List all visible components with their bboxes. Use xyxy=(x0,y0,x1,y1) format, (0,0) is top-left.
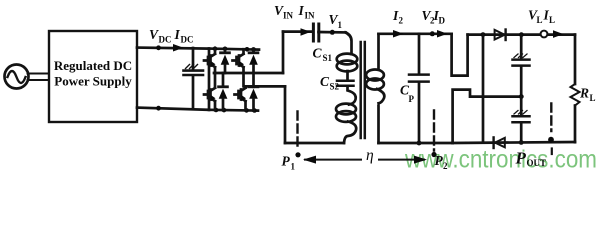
svg-text:L: L xyxy=(590,93,596,103)
Regulated DC Power Supply box xyxy=(49,31,137,122)
diode D4 (antiparallel, lower-right) xyxy=(249,87,258,111)
svg-text:L: L xyxy=(549,15,555,25)
rectifier branch rail xyxy=(482,35,485,143)
node dot mid caps xyxy=(519,94,524,99)
arrow I_D xyxy=(437,30,448,38)
wire inverter output A xyxy=(214,72,283,75)
AC source V1 xyxy=(5,65,29,89)
svg-text:S1: S1 xyxy=(323,53,333,63)
wire primary top xyxy=(283,30,346,34)
wire rectifier input jog bottom xyxy=(453,90,522,143)
svg-text:DC: DC xyxy=(181,35,194,45)
svg-text:P: P xyxy=(409,94,415,104)
wire supply bottom output xyxy=(137,108,209,110)
node dot xyxy=(481,32,486,37)
wire AC source to supply box xyxy=(28,74,50,81)
svg-text:IN: IN xyxy=(283,10,294,20)
node dot xyxy=(519,32,524,37)
inverter left rail xyxy=(208,49,211,110)
svg-text:2: 2 xyxy=(443,161,448,171)
primary coil L1 top xyxy=(337,32,358,80)
node dot xyxy=(156,45,161,50)
svg-text:V: V xyxy=(149,27,159,42)
svg-text:Power Supply: Power Supply xyxy=(54,74,132,89)
diode D5 xyxy=(495,30,506,41)
capacitor C_S2 xyxy=(337,81,354,86)
svg-text:2: 2 xyxy=(399,16,404,26)
capacitor C_S1 xyxy=(313,24,318,41)
diode D3 (antiparallel, lower-left) xyxy=(219,73,228,110)
svg-text:Regulated DC: Regulated DC xyxy=(54,58,132,73)
primary coil L1 bottom xyxy=(336,86,356,143)
node dot xyxy=(519,140,524,145)
arrow I_DC xyxy=(173,44,184,52)
svg-text:OUT: OUT xyxy=(527,158,547,168)
svg-text:I: I xyxy=(298,3,305,18)
arrow I_L xyxy=(553,30,564,38)
inverter bottom rail xyxy=(209,108,258,111)
node dot CP bottom xyxy=(417,141,422,146)
svg-text:I: I xyxy=(174,27,181,42)
wire primary bottom xyxy=(285,142,344,145)
diode D2 (antiparallel, upper-right) xyxy=(249,49,258,86)
node dot V1 xyxy=(330,30,335,35)
svg-text:DC: DC xyxy=(159,35,172,45)
node dot V2 xyxy=(430,31,435,36)
wire secondary top xyxy=(379,32,452,35)
measurement plane P2 dashed xyxy=(433,111,435,151)
arrow I_IN xyxy=(301,28,311,36)
wire inverter output B xyxy=(245,85,286,88)
svg-text:η: η xyxy=(366,147,374,164)
measurement plane POUT dashed xyxy=(550,104,552,132)
svg-text:1: 1 xyxy=(338,20,343,30)
svg-text:S2: S2 xyxy=(330,82,340,92)
resistor R_L xyxy=(571,35,580,143)
rectifier top rail xyxy=(468,33,575,36)
transistor Q1 (upper-left MOSFET) xyxy=(204,49,216,73)
wire output A riser xyxy=(282,32,285,73)
node dot xyxy=(156,106,161,111)
transformer core xyxy=(361,42,365,138)
connector circle xyxy=(541,31,548,38)
arrow I_2 xyxy=(393,30,404,38)
wire output B dropper xyxy=(284,86,287,143)
svg-text:L: L xyxy=(537,15,543,25)
svg-text:P: P xyxy=(282,154,291,169)
wire secondary bottom xyxy=(379,142,453,145)
secondary coil L2 xyxy=(366,34,384,143)
transistor Q3 (lower-left MOSFET) xyxy=(204,73,216,110)
capacitor C_P xyxy=(409,34,429,143)
inverter top rail xyxy=(209,49,259,50)
transistor Q2 (upper-right MOSFET) xyxy=(233,49,245,86)
transistor Q4 (lower-right MOSFET) xyxy=(235,86,247,110)
efficiency arrow xyxy=(303,156,427,164)
capacitor C1 (output filter top) xyxy=(513,35,530,97)
wire supply top output xyxy=(137,48,209,49)
diode D1 (antiparallel, upper-left) xyxy=(221,49,230,73)
svg-text:IN: IN xyxy=(305,10,316,20)
capacitor C2 (output filter bottom) xyxy=(513,97,530,143)
svg-text:C: C xyxy=(320,74,330,89)
measurement plane P1 dashed xyxy=(296,112,298,151)
svg-text:P: P xyxy=(515,149,527,168)
capacitor Cdc (dc link) xyxy=(184,48,204,109)
svg-text:D: D xyxy=(439,16,446,26)
svg-text:C: C xyxy=(313,46,323,61)
svg-text:R: R xyxy=(579,86,589,101)
diode D6 xyxy=(494,137,505,148)
rectifier bottom rail xyxy=(453,142,575,143)
svg-text:1: 1 xyxy=(291,162,296,172)
wire rectifier input jog top xyxy=(452,34,468,76)
